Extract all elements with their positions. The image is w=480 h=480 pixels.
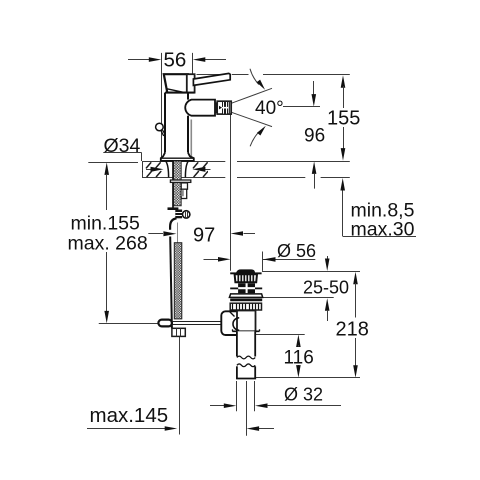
svg-text:97: 97 [193,225,215,247]
svg-text:min.155: min.155 [71,212,141,234]
svg-text:218: 218 [336,319,369,341]
svg-text:max.30: max.30 [351,219,415,241]
svg-text:max. 268: max. 268 [68,233,148,255]
svg-text:25-50: 25-50 [303,277,349,297]
svg-text:Ø 56: Ø 56 [277,241,316,261]
svg-text:155: 155 [327,107,360,129]
svg-text:Ø34: Ø34 [104,135,141,157]
svg-text:56: 56 [164,48,187,71]
svg-text:96: 96 [304,126,325,147]
svg-text:max.145: max.145 [90,404,169,427]
svg-text:40°: 40° [255,98,284,119]
svg-text:116: 116 [284,348,314,369]
svg-text:Ø 32: Ø 32 [284,385,323,405]
